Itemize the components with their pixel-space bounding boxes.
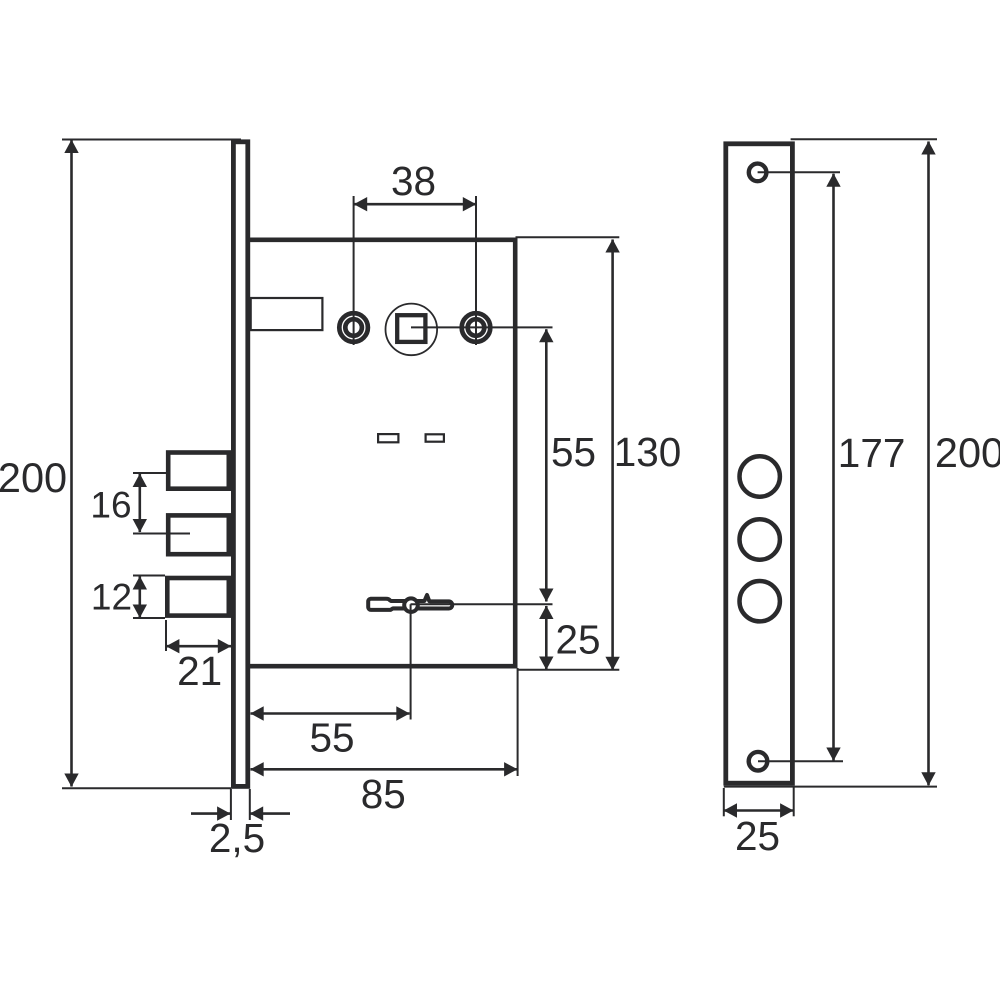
arrowhead 25rv left bbox=[724, 803, 737, 817]
ext body top right bbox=[516, 236, 620, 238]
svg-text:55: 55 bbox=[551, 429, 596, 475]
bolt B1 (top deadbolt) bbox=[168, 453, 229, 489]
arrowhead 55v down bbox=[539, 589, 553, 602]
svg-text:25: 25 bbox=[555, 617, 600, 663]
dim 38 line bbox=[354, 203, 476, 206]
arrowhead 55h left bbox=[250, 706, 263, 720]
svg-text:130: 130 bbox=[614, 429, 682, 475]
dim 21 line bbox=[166, 645, 231, 648]
svg-text:200: 200 bbox=[935, 429, 1000, 476]
ext body bottom right bbox=[518, 669, 620, 671]
arrowhead 177 up bbox=[826, 173, 840, 186]
centerline through follower bbox=[411, 326, 553, 328]
ext bottom-left (200) bbox=[62, 787, 231, 789]
arrowhead 21 right bbox=[218, 639, 231, 653]
bolt B2 (middle deadbolt) bbox=[168, 515, 229, 554]
svg-text:2,5: 2,5 bbox=[209, 815, 265, 861]
bolt B3 (lower deadbolt) bbox=[167, 578, 229, 616]
dim 2,5 right tail bbox=[250, 812, 290, 815]
svg-text:21: 21 bbox=[177, 648, 222, 694]
ext right view top (200) bbox=[791, 138, 937, 140]
arrowhead 16 up bbox=[133, 474, 147, 487]
lock body outline bbox=[248, 240, 515, 666]
ext 21 left bbox=[165, 620, 167, 651]
dim 85 line bbox=[251, 768, 518, 771]
ext top-left (200) bbox=[62, 139, 241, 141]
ext 12 top bbox=[133, 575, 165, 577]
arrowhead 200 left up bbox=[64, 140, 78, 153]
arrowhead 177 down bbox=[826, 748, 840, 761]
ext body right down (85) bbox=[517, 668, 519, 776]
ext 12 bottom bbox=[133, 617, 165, 619]
bore hole 2 bbox=[740, 519, 780, 559]
small window right bbox=[426, 434, 444, 441]
ext 38 right bbox=[475, 196, 477, 345]
svg-text:55: 55 bbox=[309, 715, 354, 761]
arrowhead 38 right bbox=[463, 197, 476, 211]
svg-text:200: 200 bbox=[0, 454, 67, 501]
keyhole bulge circle bbox=[404, 598, 418, 612]
arrowhead 130 down bbox=[605, 657, 619, 670]
arrowhead 21 left bbox=[166, 639, 179, 653]
dim 16 line bbox=[139, 474, 142, 532]
ext 38 left bbox=[353, 196, 355, 345]
keyhole centerline vertical bbox=[410, 604, 412, 719]
svg-text:25: 25 bbox=[735, 813, 780, 859]
dim 25 right view line bbox=[724, 809, 794, 812]
ext right view bottom (200) bbox=[724, 786, 937, 788]
arrowhead 38 left bbox=[354, 197, 367, 211]
faceplate front outline bbox=[726, 144, 793, 783]
keyhole (key profile cutout) bbox=[368, 595, 452, 610]
arrowhead 25rv right bbox=[780, 803, 793, 817]
dim 200 right line bbox=[927, 142, 930, 786]
ext 16 top bbox=[133, 472, 166, 474]
arrowhead 200 right up bbox=[921, 141, 935, 154]
dim 177 line bbox=[832, 174, 835, 761]
ext 16 bottom bbox=[133, 533, 190, 535]
arrowhead 25 up bbox=[539, 606, 553, 619]
ext 25 right view left bbox=[723, 788, 725, 816]
arrowhead 55h right bbox=[396, 706, 409, 720]
arrowhead 130 up bbox=[605, 239, 619, 252]
arrowhead 2,5 left (points right) bbox=[217, 806, 230, 820]
ext plate bottom right (2,5) bbox=[249, 789, 251, 820]
arrowhead 2,5 right (points left) bbox=[250, 806, 263, 820]
arrowhead 25 down bbox=[539, 657, 553, 670]
screw hole top bbox=[749, 164, 767, 182]
bore hole 3 bbox=[740, 581, 780, 621]
dim 200 left line bbox=[70, 140, 73, 787]
svg-text:85: 85 bbox=[361, 771, 406, 817]
svg-text:38: 38 bbox=[391, 158, 436, 204]
arrowhead 200 right down bbox=[921, 772, 935, 785]
arrowhead 200 left down bbox=[64, 774, 78, 787]
bore hole 1 bbox=[740, 456, 780, 496]
arrowhead 12 down bbox=[133, 605, 147, 618]
keyhole centerline horizontal bbox=[411, 603, 553, 605]
arrowhead 12 up bbox=[133, 576, 147, 589]
ext plate bottom left (2,5) bbox=[230, 789, 232, 820]
arrowhead 16 down bbox=[133, 519, 147, 532]
arrowhead 85 left bbox=[250, 762, 263, 776]
dim 130 line bbox=[611, 240, 614, 670]
ext 25 right view right bbox=[793, 786, 795, 816]
svg-text:16: 16 bbox=[90, 485, 131, 526]
small window left bbox=[378, 434, 398, 442]
cam box rectangle on body bbox=[251, 298, 323, 330]
follower circle with square spindle hole bbox=[386, 304, 438, 356]
dim 12 line bbox=[139, 577, 142, 618]
arrowhead 55v up bbox=[539, 329, 553, 342]
dim 55 vertical line bbox=[545, 329, 548, 601]
dim 55 horizontal line bbox=[251, 712, 410, 715]
arrowhead 85 right bbox=[504, 762, 517, 776]
svg-text:177: 177 bbox=[838, 430, 906, 476]
dim 25 left view line bbox=[545, 606, 548, 670]
spindle hole left (double ring) bbox=[339, 313, 368, 342]
ext screw hole bottom (177) bbox=[758, 760, 843, 762]
ext screw hole top (177) bbox=[758, 171, 840, 173]
screw hole bottom bbox=[749, 752, 768, 771]
svg-text:12: 12 bbox=[91, 577, 132, 618]
spindle hole right (double ring) bbox=[462, 313, 491, 342]
faceplate (side view, thin vertical plate) bbox=[233, 142, 247, 787]
dim 2,5 left tail bbox=[191, 812, 230, 815]
